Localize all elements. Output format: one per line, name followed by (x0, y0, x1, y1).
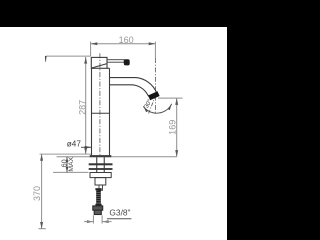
wire: head box bottom to column right (107, 67, 110, 69)
node: aerator vertical centerline (dash-dot) (154, 58, 156, 114)
svg-text:G3/8": G3/8" (109, 207, 130, 217)
white drawing sheet (0, 27, 227, 240)
node: arrowhead 287 top (84, 57, 87, 64)
hose body (filled, braided) (96, 190, 101, 204)
dimension 169 : line (176, 98, 178, 157)
dimension 370 : line (41, 154, 43, 229)
dimension bottom fitting : right ext (101, 215, 103, 223)
wire: fitting right arrow tail (102, 221, 111, 223)
node: arrowhead 287 bottom (84, 147, 87, 154)
svg-text:169: 169 (168, 120, 178, 135)
nut lower cylinder (95, 178, 106, 185)
svg-text:287: 287 (78, 100, 88, 115)
hose bottom collar (filled) (95, 204, 101, 206)
wire: aerator outlet extension line (169 top ext) (158, 97, 183, 99)
node: arrowhead 60 bottom (66, 167, 69, 173)
column left wall (91, 68, 93, 155)
hose braid stripes (96, 192, 101, 203)
dimension 60 MAX : line (66, 157, 68, 173)
angle arc 30deg (143, 104, 171, 113)
op: faucet head box (91, 57, 107, 68)
node: arrowhead fitting left (87, 220, 94, 223)
lever bar outline (107, 60, 124, 63)
node: arrowhead 160 left (91, 42, 98, 45)
spout bottom curve (110, 85, 151, 98)
spout top curve (110, 78, 157, 93)
column seam line (92, 112, 110, 114)
wire: counter underside line (60MAX bottom tick / 169 bottom ext) (53, 171, 89, 173)
wire: ø47 leader (81, 146, 91, 148)
dimension 160 : line (91, 43, 156, 45)
washer bar 2 (filled) (89, 168, 113, 170)
wire: 370 bottom tick (39, 228, 46, 230)
node: aerator tilted axis (dash-dot 30deg) (149, 95, 156, 114)
node: arrowhead 60 top (66, 157, 69, 163)
node: datum end tick (45, 56, 47, 62)
column right wall (109, 68, 111, 155)
wire: fitting left arrow tail (84, 221, 93, 223)
shank right wall (103, 157, 105, 172)
stem between nut and hose (99, 185, 103, 190)
node: arc arrowhead right (168, 104, 172, 110)
shank left wall (96, 157, 98, 172)
dimension 160 : left extension (90, 42, 92, 56)
dimension 287 : line (85, 57, 87, 154)
wire: counter-top line (60MAX top tick) (57, 156, 177, 158)
dimension 160 : right extension (154, 42, 156, 58)
node: arrowhead ø47 (85, 146, 92, 149)
node: arrowhead 160 right (149, 42, 156, 45)
hose top collar (filled) (95, 188, 101, 190)
wire: faucet top datum extension line (46, 55, 91, 57)
node: arrowhead 169 bottom (175, 150, 178, 157)
G3/8 fitting lower (94, 210, 101, 214)
svg-text:160: 160 (119, 35, 134, 45)
base plate (90, 155, 112, 157)
svg-text:MAX: MAX (68, 156, 75, 171)
black transparent-margin bars (top & right) (0, 0, 240, 240)
node: vertical centerline of body (dash-dot) (99, 53, 101, 155)
svg-text:ø47: ø47 (67, 139, 82, 148)
washer bar 1 (filled) (89, 163, 113, 165)
lever knob (filled) (124, 59, 130, 65)
node: arc arrowhead left (143, 106, 148, 112)
dimension bottom fitting : left ext (92, 215, 94, 223)
svg-text:370: 370 (32, 186, 42, 201)
aerator tip (filled, rotated) (148, 91, 160, 100)
G3/8 fitting upper (93, 206, 103, 210)
node: arrowhead 370 bottom (40, 222, 43, 229)
wire: G3/8 underline leader (107, 218, 131, 220)
node: arrowhead 370 top (40, 154, 43, 161)
node: arrowhead fitting right (102, 220, 109, 223)
wire: head box diagonal (92, 64, 107, 68)
wire: deck datum line (left extension) (40, 153, 92, 155)
node: arrowhead 169 top (175, 98, 178, 105)
mounting nut (90, 173, 111, 178)
